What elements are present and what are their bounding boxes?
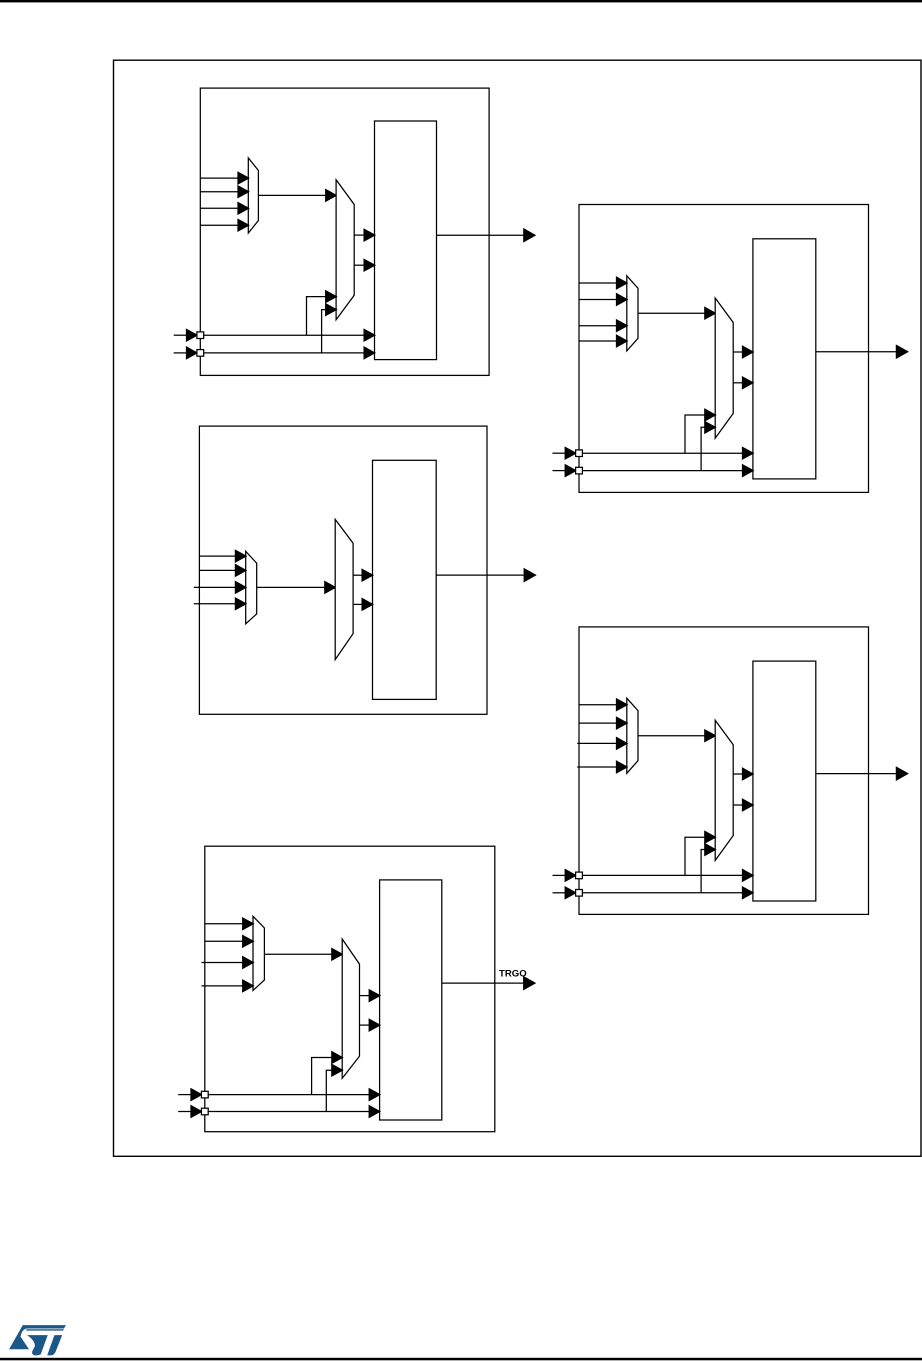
timer block TIM1 pin square TI1 (197, 332, 204, 339)
timer block TIM5 pin square TI2 (201, 1108, 208, 1115)
timer block TIM2 input wire ITR3 (579, 335, 627, 347)
timer block TIM4 external input arrow TI1 (553, 870, 576, 882)
timer block TIM5 external input arrow TI1 (178, 1089, 201, 1101)
timer block TIM2 wire TRGO output (816, 345, 908, 358)
timer block TIM5 outer box (205, 846, 495, 1131)
ST logo (9, 1325, 66, 1355)
timer block TIM4 counter/prescaler rectangle (753, 661, 816, 901)
timer block TIM5 counter/prescaler rectangle (380, 880, 442, 1120)
timer block TIM4 outer box (579, 627, 869, 915)
timer block TIM2 input wire ITR1 (579, 294, 627, 306)
timer block TIM1 trigger mux 1 (248, 158, 258, 233)
timer block TIM1 wire feedback 1 to mux2 (307, 291, 337, 335)
timer block TIM5 wire TI1 bottom line (205, 1089, 380, 1101)
timer block TIM3 input wire ITR3 (194, 598, 246, 610)
page top rule (0, 0, 922, 2)
timer block TIM4 input wire ITR2 (577, 738, 627, 750)
timer block TIM5 pin square TI1 (201, 1091, 208, 1098)
timer block TIM2 trigger mux 1 (627, 276, 638, 351)
timer block TIM4 pin square TI2 (576, 890, 583, 897)
timer block TIM5 trigger mux 1 (253, 916, 264, 990)
timer block TIM4 wire mux2 output 2 (733, 799, 753, 811)
timer block TIM3 input wire ITR0 (199, 550, 246, 562)
timer block TIM3 input wire ITR2 (194, 582, 246, 594)
timer block TIM4 trigger mux 2 (715, 720, 733, 860)
timer block TIM5 wire TRGO output (442, 977, 535, 990)
timer block TIM5 wire mux2 output 1 (360, 990, 380, 1002)
timer block TIM2 pin square TI1 (576, 450, 583, 457)
timer block TIM2 trigger mux 2 (715, 298, 733, 438)
timer block TIM1 input wire ITR0 (200, 172, 248, 184)
timer block TIM2 wire feedback 1 to mux2 (685, 409, 715, 453)
timer block TIM1 wire mux2 output 1 (354, 229, 375, 241)
timer block TIM3 outer box (199, 426, 487, 714)
page bottom rule (0, 1358, 922, 1361)
timer block TIM1 wire TI2 bottom line (200, 347, 374, 359)
timer block TIM3 wire mux2 output 2 (353, 599, 373, 611)
timer block TIM1 trigger mux 2 (336, 180, 354, 320)
timer block TIM2 outer box (579, 205, 869, 493)
timer block TIM2 wire mux2 output 2 (733, 377, 753, 389)
timer block TIM1 wire mux2 output 2 (354, 259, 375, 271)
timer block TIM5 wire mux2 output 2 (360, 1019, 380, 1031)
timer block TIM2 pin square TI2 (576, 467, 583, 474)
timer block TIM2 input wire ITR2 (579, 320, 627, 332)
timer block TIM5 trigger mux 2 (342, 939, 359, 1078)
timer block TIM5 input wire ITR2 (202, 957, 254, 969)
timer block TIM1 external input arrow TI2 (174, 347, 197, 359)
timer block TIM2 wire mux2 output 1 (733, 346, 753, 358)
timer block TIM3 trigger mux 1 (246, 551, 257, 624)
timer block TIM2 wire TI2 bottom line (579, 465, 753, 477)
timer block TIM5 input wire ITR0 (205, 918, 254, 930)
figure frame (114, 60, 922, 1156)
timer block TIM5 external input arrow TI2 (178, 1106, 201, 1118)
timer block TIM1 pin square TI2 (197, 350, 204, 357)
timer block TIM1 input wire ITR3 (200, 219, 248, 231)
timer block TIM4 external input arrow TI2 (553, 887, 576, 899)
timer block TIM3 wire TRGO output (436, 569, 535, 582)
timer block TIM4 input wire ITR1 (579, 717, 627, 729)
timer block TIM4 pin square TI1 (576, 872, 583, 879)
timer block TIM5 wire feedback 2 to mux2 (326, 1064, 342, 1111)
timer block TIM3 wire mux2 output 1 (353, 569, 373, 581)
timer block TIM4 trigger mux 1 (627, 698, 638, 773)
svg-text:TRGO: TRGO (499, 968, 527, 979)
timer block TIM2 wire mux1 output (638, 307, 715, 319)
timer block TIM1 wire TRGO output (437, 229, 536, 242)
timer block TIM5 wire mux1 output (264, 949, 342, 961)
timer block TIM5 wire feedback 1 to mux2 (312, 1052, 343, 1095)
timer block TIM4 wire TI2 bottom line (579, 887, 753, 899)
timer block TIM2 wire TI1 bottom line (579, 447, 753, 459)
timer block TIM2 counter/prescaler rectangle (753, 239, 816, 479)
timer block TIM2 wire feedback 2 to mux2 (701, 422, 715, 471)
timer block TIM4 wire feedback 1 to mux2 (685, 831, 715, 875)
timer block TIM1 outer box (200, 88, 489, 375)
timer block TIM5 input wire ITR1 (205, 936, 254, 948)
timer block TIM1 wire mux1 output (258, 190, 336, 202)
timer block TIM5 wire TI2 bottom line (205, 1106, 380, 1118)
timer block TIM3 input wire ITR1 (199, 565, 246, 577)
timer block TIM4 wire feedback 2 to mux2 (701, 844, 715, 893)
timer block TIM1 wire TI1 bottom line (200, 329, 374, 341)
timer block TIM1 input wire ITR2 (200, 203, 248, 215)
timer block TIM1 external input arrow TI1 (174, 329, 197, 341)
timer block TIM3 trigger mux 2 (335, 519, 353, 659)
timer block TIM4 input wire ITR3 (577, 761, 627, 773)
timer block TIM4 input wire ITR0 (579, 699, 627, 711)
timer block TIM1 input wire ITR1 (200, 186, 248, 198)
timer block TIM4 wire mux2 output 1 (733, 768, 753, 780)
timer block TIM5 input wire ITR3 (202, 980, 254, 992)
timer block TIM3 wire mux1 output (257, 582, 336, 594)
timer block TIM4 wire TI1 bottom line (579, 870, 753, 882)
timer block TIM1 wire feedback 2 to mux2 (322, 304, 337, 353)
timer block TIM4 wire mux1 output (638, 730, 715, 742)
timer block TIM2 input wire ITR0 (579, 277, 627, 289)
timer block TIM3 counter/prescaler rectangle (373, 460, 437, 699)
timer block TIM4 wire TRGO output (816, 767, 908, 780)
timer block TIM2 external input arrow TI1 (553, 447, 576, 459)
timer block TIM1 counter/prescaler rectangle (375, 121, 437, 360)
timer block TIM2 external input arrow TI2 (553, 465, 576, 477)
